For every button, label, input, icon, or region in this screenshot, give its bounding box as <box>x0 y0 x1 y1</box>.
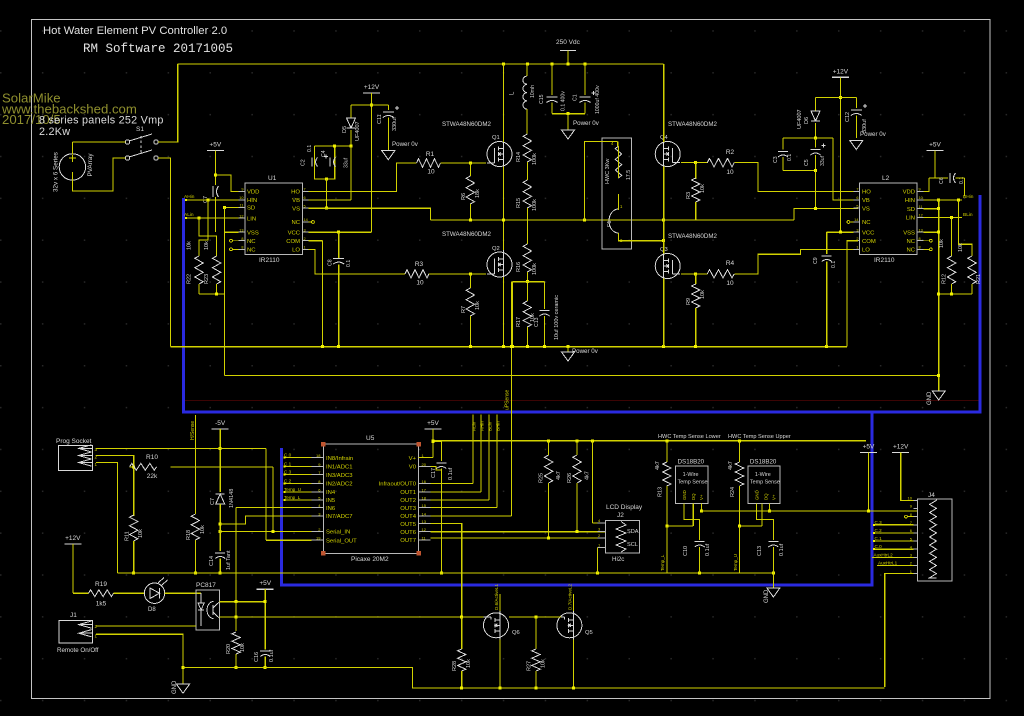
wire LCD pwr stub <box>593 522 598 524</box>
wire collector tap down <box>235 602 237 617</box>
svg-text:STWA48N60DM2: STWA48N60DM2 <box>668 121 717 128</box>
L2 left pin stub NC <box>853 221 859 223</box>
junction mid rail Q34 <box>662 218 665 221</box>
svg-text:Hi2c: Hi2c <box>612 556 624 563</box>
junction pulldown r <box>937 293 940 296</box>
wire DQ1 down <box>692 503 694 526</box>
wire +5v rail bottom <box>433 440 866 442</box>
svg-text:LO: LO <box>862 248 870 254</box>
junction DQ1 <box>665 524 668 527</box>
junction R12 top <box>950 216 953 219</box>
svg-text:DQ: DQ <box>691 493 696 500</box>
wire R20 top <box>235 617 237 631</box>
wire Q4 gate to R2 <box>681 162 707 164</box>
svg-text:R21: R21 <box>976 274 982 284</box>
wire to D6 <box>816 96 841 98</box>
svg-text:R16: R16 <box>516 262 522 272</box>
resistor R2 <box>707 158 734 166</box>
svg-text:LO: LO <box>292 248 300 254</box>
svg-text:ALin: ALin <box>472 421 477 431</box>
wire +5v to VDD <box>215 175 238 192</box>
ground caps <box>562 130 575 139</box>
capacitor C16 <box>260 651 270 657</box>
L2 left pin stub HO <box>853 190 859 192</box>
svg-text:7: 7 <box>856 188 858 192</box>
svg-text:F1: F1 <box>607 221 613 227</box>
wire sense right <box>544 282 546 309</box>
wire VSS gnd <box>225 231 239 233</box>
wire L bottom <box>526 109 528 134</box>
U5 right stub OUT3 <box>419 507 431 509</box>
svg-text:R27: R27 <box>527 661 533 671</box>
wire R28 bot <box>461 671 463 688</box>
wire C9 top <box>826 232 828 254</box>
wire gnd column right <box>938 200 940 391</box>
wire gate line Q5 <box>509 616 561 618</box>
svg-text:DS18B20: DS18B20 <box>750 459 777 466</box>
svg-text:33uf: 33uf <box>344 157 350 168</box>
U5 right stub V+ <box>419 457 431 459</box>
resistor R28 <box>458 649 466 671</box>
sensor U3 DS18B20 lower box <box>676 466 708 503</box>
junction SD r <box>937 207 940 210</box>
svg-text:R3: R3 <box>415 261 424 268</box>
junction r25 <box>547 439 550 442</box>
wire 250Vdc stub <box>567 51 569 65</box>
svg-text:10k: 10k <box>187 241 193 250</box>
capacitor C1 <box>580 91 596 103</box>
fuse F1 <box>609 209 619 233</box>
svg-text:Picaxe 20M2: Picaxe 20M2 <box>351 556 389 563</box>
wire pulldown join <box>199 293 225 295</box>
junction top bus A <box>502 63 505 66</box>
wire PV+ to switch <box>72 141 125 143</box>
wire out to col BHin <box>431 507 497 509</box>
svg-text:SD: SD <box>247 206 255 212</box>
svg-text:10k: 10k <box>700 184 706 193</box>
svg-text:1N4148: 1N4148 <box>229 489 235 508</box>
wire VCC row <box>309 231 372 233</box>
svg-text:VSS: VSS <box>903 230 915 236</box>
wire innet Temp_L <box>284 499 311 501</box>
capacitor C13 ceramic <box>540 311 550 317</box>
svg-text:17: 17 <box>422 487 427 492</box>
wire to gnd caps <box>567 114 569 130</box>
wire SD gnd r <box>923 208 938 210</box>
svg-text:10mh: 10mh <box>530 85 536 98</box>
wire R4 to LO L2 <box>734 249 858 273</box>
wire J1 pin1 gnd <box>96 634 183 684</box>
resistor R9 <box>692 284 700 308</box>
svg-text:10: 10 <box>726 169 734 176</box>
svg-text:C.3: C.3 <box>875 520 883 525</box>
junction C16 bot <box>264 666 267 669</box>
U5 left stub Serial_IN <box>311 530 323 532</box>
wire +5v u5 down <box>432 429 434 458</box>
junction top bus B <box>526 63 529 66</box>
svg-text:IN1/ADC1: IN1/ADC1 <box>326 465 353 471</box>
J2 stub 2 <box>597 537 605 539</box>
svg-text:VDD: VDD <box>903 190 915 196</box>
svg-text:14: 14 <box>422 511 427 516</box>
svg-text:5: 5 <box>304 204 306 208</box>
U1 left pin stub SD <box>239 207 245 209</box>
wire Q6 drain net <box>499 594 501 611</box>
wire j4 C.2 <box>873 532 913 534</box>
resistor R14 <box>523 134 531 162</box>
svg-text:7: 7 <box>304 188 306 192</box>
junction rail gnd <box>772 571 775 574</box>
wire C15 bot <box>551 103 553 114</box>
wire +12v right down <box>839 77 841 232</box>
op-amp U1 IR2110 box <box>245 183 303 255</box>
wire out to col BLin <box>431 499 489 501</box>
svg-text:IR2110: IR2110 <box>259 257 280 264</box>
svg-text:J2: J2 <box>617 512 624 519</box>
svg-text:STWA48N60DM2: STWA48N60DM2 <box>442 231 491 238</box>
svg-text:20: 20 <box>422 462 427 467</box>
svg-text:STWA48N60DM2: STWA48N60DM2 <box>668 233 717 240</box>
svg-text:R23: R23 <box>204 274 210 284</box>
junction R26 bot <box>576 530 579 533</box>
svg-text:4k7: 4k7 <box>585 471 591 480</box>
svg-text:IN7/ADC7: IN7/ADC7 <box>326 514 353 520</box>
svg-text:C13: C13 <box>757 546 763 556</box>
junction Q6 src <box>499 686 502 689</box>
wire COM down <box>847 241 858 347</box>
wire C10 bot <box>699 547 701 573</box>
U5 corner mark <box>321 442 325 446</box>
capacitor C11 <box>383 106 399 118</box>
svg-text:C14: C14 <box>209 556 215 566</box>
svg-text:10k: 10k <box>475 301 481 310</box>
svg-text:12: 12 <box>919 214 923 218</box>
svg-text:1uf Tant: 1uf Tant <box>226 550 232 570</box>
L2 right pin stub SD <box>917 208 923 210</box>
svg-text:4k7: 4k7 <box>728 461 734 470</box>
svg-text:BHin: BHin <box>963 194 974 200</box>
wire C7 bot <box>214 197 216 232</box>
connector J1 remote <box>59 621 93 644</box>
U1 left pin stub VSS <box>239 231 245 233</box>
red artifact line <box>183 400 980 402</box>
svg-text:R7: R7 <box>461 306 467 313</box>
svg-text:C9: C9 <box>813 257 819 264</box>
wire C9 bot <box>826 262 828 347</box>
junction R27 top <box>535 616 538 619</box>
junction 0v bus 322 <box>321 345 324 348</box>
svg-text:VB: VB <box>292 198 300 204</box>
svg-text:100k: 100k <box>532 263 538 275</box>
svg-text:C4: C4 <box>321 150 327 157</box>
wire j4 AuxHtrL2 <box>872 556 914 558</box>
junction 0v bus 338 <box>337 345 340 348</box>
wire innet C.0 <box>284 457 311 459</box>
svg-text:10: 10 <box>908 496 913 501</box>
junction VSS r <box>937 231 940 234</box>
wire R22 top <box>199 200 208 256</box>
svg-text:DS18B20: DS18B20 <box>678 459 705 466</box>
wire bottom gnd rail <box>183 667 885 688</box>
svg-text:NC: NC <box>906 248 915 254</box>
J4 stub 10 <box>914 499 918 501</box>
svg-text:+5V: +5V <box>863 444 875 451</box>
transistor Q3 <box>655 252 680 281</box>
wire VCC stub r <box>827 231 854 233</box>
svg-text:8: 8 <box>241 237 243 241</box>
J4 stub 8 <box>914 516 918 518</box>
svg-text:100k: 100k <box>532 199 538 211</box>
svg-text:Temp_U: Temp_U <box>284 487 301 492</box>
wire sense rail <box>512 281 544 283</box>
svg-text:Power 0v: Power 0v <box>572 348 599 355</box>
resistor R4 <box>707 270 734 278</box>
switch S1 link <box>140 136 142 155</box>
wire to IN7 <box>220 516 311 524</box>
junction ALin <box>185 217 187 219</box>
inductor L <box>523 76 527 109</box>
blue highlight rect1 bottom <box>182 410 982 413</box>
wire C3 bot <box>782 157 784 171</box>
U5 left stub IN7/ADC7 <box>311 515 323 517</box>
power +12V bottom bar <box>64 543 81 545</box>
svg-text:STWA48N60DM2: STWA48N60DM2 <box>442 121 491 128</box>
svg-text:LIN: LIN <box>906 216 915 222</box>
wire R23 top <box>199 218 217 256</box>
blue highlight rect1 right <box>979 195 982 413</box>
junction cap bank <box>567 112 570 115</box>
hook C.0 <box>284 457 286 459</box>
junction 0v bus 663 <box>662 345 665 348</box>
junction VS C5 <box>814 207 817 210</box>
resistor R6 <box>466 176 474 204</box>
svg-text:UF4007: UF4007 <box>355 121 361 141</box>
svg-text:14: 14 <box>304 218 308 222</box>
capacitor C17 <box>436 463 446 469</box>
wire OUT5 down <box>431 524 462 617</box>
svg-text:+5V: +5V <box>929 142 941 149</box>
wire V+2 <box>769 503 771 511</box>
transistor Q2 <box>487 250 512 279</box>
J4 stub 6 <box>914 532 918 534</box>
junction SD <box>223 206 226 209</box>
svg-text:Serial_IN: Serial_IN <box>326 530 350 536</box>
wire OUT7 LCD <box>431 537 606 539</box>
wire +12v bottom down <box>72 544 74 593</box>
diode D5 <box>347 118 356 128</box>
wire to VS L2 <box>816 171 859 209</box>
svg-text:10k: 10k <box>204 241 210 250</box>
wire prog pin2 <box>96 456 134 517</box>
capacitor C10 <box>695 542 705 548</box>
J4 stub 5 <box>914 540 918 542</box>
svg-text:C15: C15 <box>539 94 545 104</box>
svg-text:11: 11 <box>240 204 244 208</box>
svg-text:R18: R18 <box>186 530 192 540</box>
svg-text:HIN: HIN <box>905 198 915 204</box>
svg-text:R19: R19 <box>95 581 107 588</box>
U5 right stub OUT4 <box>419 515 431 517</box>
wire HO to R1 <box>309 163 417 191</box>
wire R14-R15 <box>526 162 528 180</box>
transistor Q1 <box>487 140 512 169</box>
L2 left pin stub VCC <box>853 231 859 233</box>
junction 0v bus 503 <box>502 345 505 348</box>
svg-text:R12: R12 <box>942 274 948 284</box>
hook j4 C.3 <box>873 524 875 526</box>
wire PV- to switch <box>72 158 125 191</box>
hook j4 C.0 <box>873 548 875 550</box>
svg-text:R11: R11 <box>125 531 131 541</box>
wire innet C.2 <box>284 483 311 485</box>
L2 right pin stub VSS <box>917 231 923 233</box>
U1 NC mark right <box>312 221 315 224</box>
svg-text:0.1uf: 0.1uf <box>448 467 454 480</box>
svg-text:C5: C5 <box>804 159 810 166</box>
svg-text:Temp Sense: Temp Sense <box>750 480 780 486</box>
wire R3b bot <box>695 202 697 220</box>
svg-text:+5V: +5V <box>259 580 271 587</box>
wire Serial_IN <box>220 530 311 532</box>
svg-text:10k: 10k <box>939 239 945 248</box>
wire R25 bot <box>548 483 550 538</box>
U5 right stub OUT5 <box>419 523 431 525</box>
U5 left stub IN6 <box>311 507 323 509</box>
wire Q3 gate to R4 <box>681 273 707 275</box>
svg-text:5: 5 <box>856 204 858 208</box>
wire C13 bot <box>544 316 546 347</box>
wire +12v left down <box>371 93 373 232</box>
wire j4 pin1 down <box>885 574 914 687</box>
junction fuse <box>662 239 665 242</box>
svg-text:10: 10 <box>919 196 923 200</box>
junction +12v VCC r <box>839 231 842 234</box>
hook j4 C.2 <box>873 532 875 534</box>
L2 right pin stub NC <box>917 248 923 250</box>
wire 0v gnd stub <box>567 347 569 352</box>
junction 0v bus 512 <box>511 345 514 348</box>
wire C3C5 bot rail <box>783 170 816 172</box>
J2 stub 1 <box>597 546 605 548</box>
wire Serial_OUT <box>266 539 311 541</box>
svg-text:Hot Water Element PV Controlle: Hot Water Element PV Controller 2.0 <box>43 25 227 37</box>
svg-text:9: 9 <box>241 188 243 192</box>
wire Q1 drain <box>503 64 505 142</box>
wire col ALin <box>472 414 474 483</box>
junction +12v right <box>839 96 842 99</box>
wire sense left <box>511 282 513 347</box>
connector J4 box <box>917 499 951 581</box>
junction C17 bot <box>440 571 443 574</box>
wire OUT4 to uPSense <box>431 515 512 517</box>
svg-text:OUT7: OUT7 <box>400 538 416 544</box>
svg-text:OUT6: OUT6 <box>400 530 416 536</box>
blue highlight rect2 left <box>280 448 283 587</box>
svg-text:+12V: +12V <box>364 84 380 91</box>
junction r13 <box>665 439 668 442</box>
svg-text:S1: S1 <box>136 126 144 133</box>
wire R10 line <box>170 466 273 468</box>
svg-text:0.1: 0.1 <box>787 154 793 161</box>
junction 0v bus 470 <box>469 345 472 348</box>
wire emitter line <box>220 616 484 618</box>
wire loop to D5 col <box>335 145 351 147</box>
svg-text:1: 1 <box>856 246 858 250</box>
svg-text:3: 3 <box>304 228 306 232</box>
U1 left pin stub LIN <box>239 217 245 219</box>
svg-text:IN4: IN4 <box>326 490 336 496</box>
svg-text:Temp_L: Temp_L <box>284 495 301 500</box>
wire out to col AHin <box>431 491 481 493</box>
svg-text:330uf: 330uf <box>392 117 398 131</box>
svg-text:R9: R9 <box>686 298 692 305</box>
svg-text:+12V: +12V <box>893 444 909 451</box>
wire fuse bottom <box>619 233 664 241</box>
resistor R13 <box>663 462 671 486</box>
junction sense <box>526 280 529 283</box>
svg-text:19: 19 <box>316 536 321 541</box>
svg-text:12: 12 <box>422 527 427 532</box>
wire C17 top <box>440 442 442 462</box>
L2 left pin stub COM <box>853 240 859 242</box>
transistor Q5 <box>557 611 582 640</box>
junction 0v bus 527 <box>526 345 529 348</box>
svg-text:10k: 10k <box>200 525 206 534</box>
junction R20 top <box>235 616 238 619</box>
svg-text:COM: COM <box>286 239 300 245</box>
wire LCD pwr <box>592 441 594 523</box>
PC817 internals <box>198 593 220 626</box>
svg-text:U5: U5 <box>366 435 375 442</box>
svg-text:Q5: Q5 <box>585 630 593 636</box>
L2 left pin stub LO <box>853 248 859 250</box>
svg-text:R14: R14 <box>516 152 522 162</box>
wire V+ stub <box>419 457 433 459</box>
svg-text:8: 8 <box>919 246 921 250</box>
svg-text:1: 1 <box>304 246 306 250</box>
svg-text:OUT2: OUT2 <box>400 498 416 504</box>
hook Temp_U <box>284 491 286 493</box>
svg-text:9: 9 <box>919 188 921 192</box>
svg-text:HIN: HIN <box>247 198 257 204</box>
svg-text:R26: R26 <box>567 473 573 483</box>
svg-text:R20: R20 <box>226 644 232 654</box>
svg-text:NC: NC <box>906 239 915 245</box>
svg-text:1-Wire: 1-Wire <box>683 472 699 478</box>
wire C12 top <box>855 97 857 108</box>
capacitor C8 <box>333 259 344 265</box>
wire R2 to HO L2 <box>734 163 858 192</box>
svg-text:3: 3 <box>856 228 858 232</box>
svg-text:R24: R24 <box>730 487 736 497</box>
U1 right pin stub VB <box>302 199 308 201</box>
wire Q4 drain <box>663 64 665 142</box>
wire +5v left down <box>214 151 216 186</box>
wire R11 bot <box>133 541 135 573</box>
wire R10 left lead <box>130 466 134 468</box>
svg-text:13: 13 <box>919 228 923 232</box>
wire DQ2 join <box>740 525 763 527</box>
power +5V U5 bar <box>425 428 442 430</box>
connector Prog Socket <box>59 445 93 471</box>
wire AHin to HIN <box>186 199 239 201</box>
junction J1 gnd rail <box>182 666 185 669</box>
power +5V right post bar <box>860 452 877 454</box>
capacitor C2 <box>312 158 318 167</box>
wire j4 C.1 <box>873 540 913 542</box>
junction serial in <box>272 530 275 533</box>
wire COM down <box>321 241 323 347</box>
